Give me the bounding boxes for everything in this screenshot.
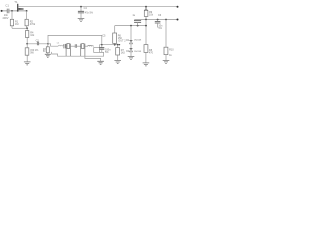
svg-text:470k: 470k xyxy=(30,23,36,26)
node junction R9 top xyxy=(145,6,147,8)
ground under R7 xyxy=(114,61,121,64)
wire L2 riser to output xyxy=(100,45,120,48)
svg-text:5%: 5% xyxy=(105,51,109,54)
wire diode chain xyxy=(130,26,132,41)
wire R9 chain down xyxy=(145,20,147,45)
ground under R10 xyxy=(163,60,170,63)
ground under C4 xyxy=(78,18,85,21)
node junction R10/rail xyxy=(165,19,167,21)
crystal filter FL2 xyxy=(81,44,85,57)
svg-text:1k: 1k xyxy=(169,54,172,57)
wire between crystals xyxy=(70,45,75,47)
node junction filter input xyxy=(47,43,49,45)
node input terminal xyxy=(1,10,3,12)
wire shield to ground xyxy=(85,56,101,61)
svg-text:D1: D1 xyxy=(126,39,130,42)
trimmer arrow R9 xyxy=(144,7,147,11)
svg-text:5W: 5W xyxy=(30,51,34,54)
resistor R2 xyxy=(25,11,36,28)
node terminal top rail end xyxy=(177,6,179,8)
wire y=43.8 to filter xyxy=(27,43,48,45)
ground filter shield xyxy=(97,61,104,64)
capacitor C3 series xyxy=(64,44,65,48)
node junction C4 top rail xyxy=(80,6,82,8)
svg-text:D2: D2 xyxy=(126,50,130,53)
svg-text:R10: R10 xyxy=(169,49,174,52)
svg-text:10k: 10k xyxy=(149,14,154,17)
wire xyxy=(130,52,132,57)
resistor R10 xyxy=(164,47,174,60)
capacitor C3b series xyxy=(75,44,76,48)
svg-text:400V: 400V xyxy=(2,16,8,20)
inductor L1 input coil xyxy=(58,45,64,46)
svg-text:1M: 1M xyxy=(15,23,18,26)
wire top rail y=6.7 xyxy=(18,6,177,8)
node junction T1/base xyxy=(17,10,19,12)
crystal filter FL1 xyxy=(66,44,70,57)
inductor L2 output coil xyxy=(88,45,94,46)
inductor L2 core box xyxy=(94,48,100,53)
node junction R7 xyxy=(117,44,119,46)
wire xyxy=(85,45,88,47)
wire top link over filter xyxy=(48,35,102,44)
node junction R4/R5/wire xyxy=(26,43,28,45)
svg-text:L1: L1 xyxy=(57,42,60,44)
transistor T1 xyxy=(14,0,23,11)
wire shield rail xyxy=(52,52,104,56)
svg-text:C4: C4 xyxy=(84,7,88,10)
node output terminal xyxy=(119,44,120,45)
svg-text:T1: T1 xyxy=(14,0,18,4)
svg-text:50: 50 xyxy=(43,51,46,53)
node junction diodes xyxy=(130,25,132,27)
resistor R8 xyxy=(144,45,154,63)
node junction top link / output wire xyxy=(101,44,103,46)
svg-text:C6: C6 xyxy=(158,14,162,17)
diode D2 xyxy=(126,48,142,53)
svg-text:C1: C1 xyxy=(5,3,9,7)
svg-text:1k5: 1k5 xyxy=(121,51,126,54)
ground under R3 xyxy=(45,54,51,57)
resistor R6 xyxy=(113,26,123,45)
capacitor C6 xyxy=(155,14,163,30)
node junction R9/rail xyxy=(145,19,147,21)
resistor R3 termination xyxy=(43,44,49,54)
node terminal rail end xyxy=(177,19,179,21)
node junction wire25/R9chain xyxy=(145,25,147,27)
resistor R7 xyxy=(116,45,126,61)
resistor R4 xyxy=(26,28,35,44)
ground under R5 xyxy=(24,62,31,65)
capacitor C1 xyxy=(2,3,9,19)
svg-text:OUT 2: OUT 2 xyxy=(118,40,126,43)
wire y=25.6 R6 top link xyxy=(115,25,146,27)
ground under R8 xyxy=(143,63,150,66)
resistor R9 xyxy=(144,11,153,20)
wire filter input jog xyxy=(48,44,58,46)
svg-text:C5: C5 xyxy=(102,35,106,38)
svg-text:1N4148: 1N4148 xyxy=(134,51,142,53)
diode D1 xyxy=(126,39,142,44)
capacitor C7 xyxy=(132,14,141,26)
wire input line y=10.9 xyxy=(1,10,27,12)
capacitor C5 shunt xyxy=(99,35,111,54)
wire rail y=19.5 xyxy=(135,19,178,21)
node junction R6 xyxy=(114,44,116,46)
ground under D2 xyxy=(128,56,135,59)
svg-text:470: 470 xyxy=(149,51,154,54)
capacitor C4 xyxy=(78,7,94,19)
svg-text:10k: 10k xyxy=(30,34,35,37)
wire R10 chain xyxy=(165,20,167,48)
node junction R1/R2/R4 xyxy=(26,27,28,29)
node junction at R2 xyxy=(26,10,28,12)
capacitor C2 series xyxy=(36,39,40,45)
wire xyxy=(77,45,81,47)
wire xyxy=(130,44,132,49)
svg-text:150: 150 xyxy=(118,37,123,40)
resistor R1 xyxy=(10,11,19,28)
svg-text:47p 5%: 47p 5% xyxy=(85,12,94,15)
svg-text:1N4148: 1N4148 xyxy=(134,40,142,42)
resistor R5 xyxy=(25,44,39,62)
svg-text:1u: 1u xyxy=(132,14,135,17)
node junction C6/rail xyxy=(157,19,159,21)
node junction at C1/R1 xyxy=(11,10,13,12)
node junction C7 xyxy=(137,25,139,27)
wire R1 bottom to R4 node xyxy=(12,27,27,29)
